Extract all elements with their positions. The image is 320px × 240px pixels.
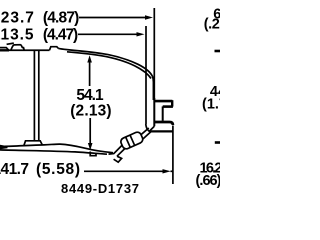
svg-text:(5.58): (5.58) [36, 161, 80, 178]
svg-text:141.7: 141.7 [0, 161, 29, 178]
svg-text:(2.13): (2.13) [70, 103, 111, 120]
svg-text:54.1: 54.1 [76, 87, 104, 104]
svg-text:8449-D1737: 8449-D1737 [61, 181, 139, 196]
svg-text:113.5: 113.5 [0, 27, 34, 44]
svg-text:(.25): (.25) [204, 17, 220, 33]
svg-text:123.7: 123.7 [0, 10, 34, 27]
svg-text:(.66): (.66) [196, 173, 221, 189]
svg-text:(1.76): (1.76) [202, 97, 220, 113]
svg-text:(4.47): (4.47) [43, 27, 78, 44]
svg-text:(4.87): (4.87) [43, 10, 79, 27]
